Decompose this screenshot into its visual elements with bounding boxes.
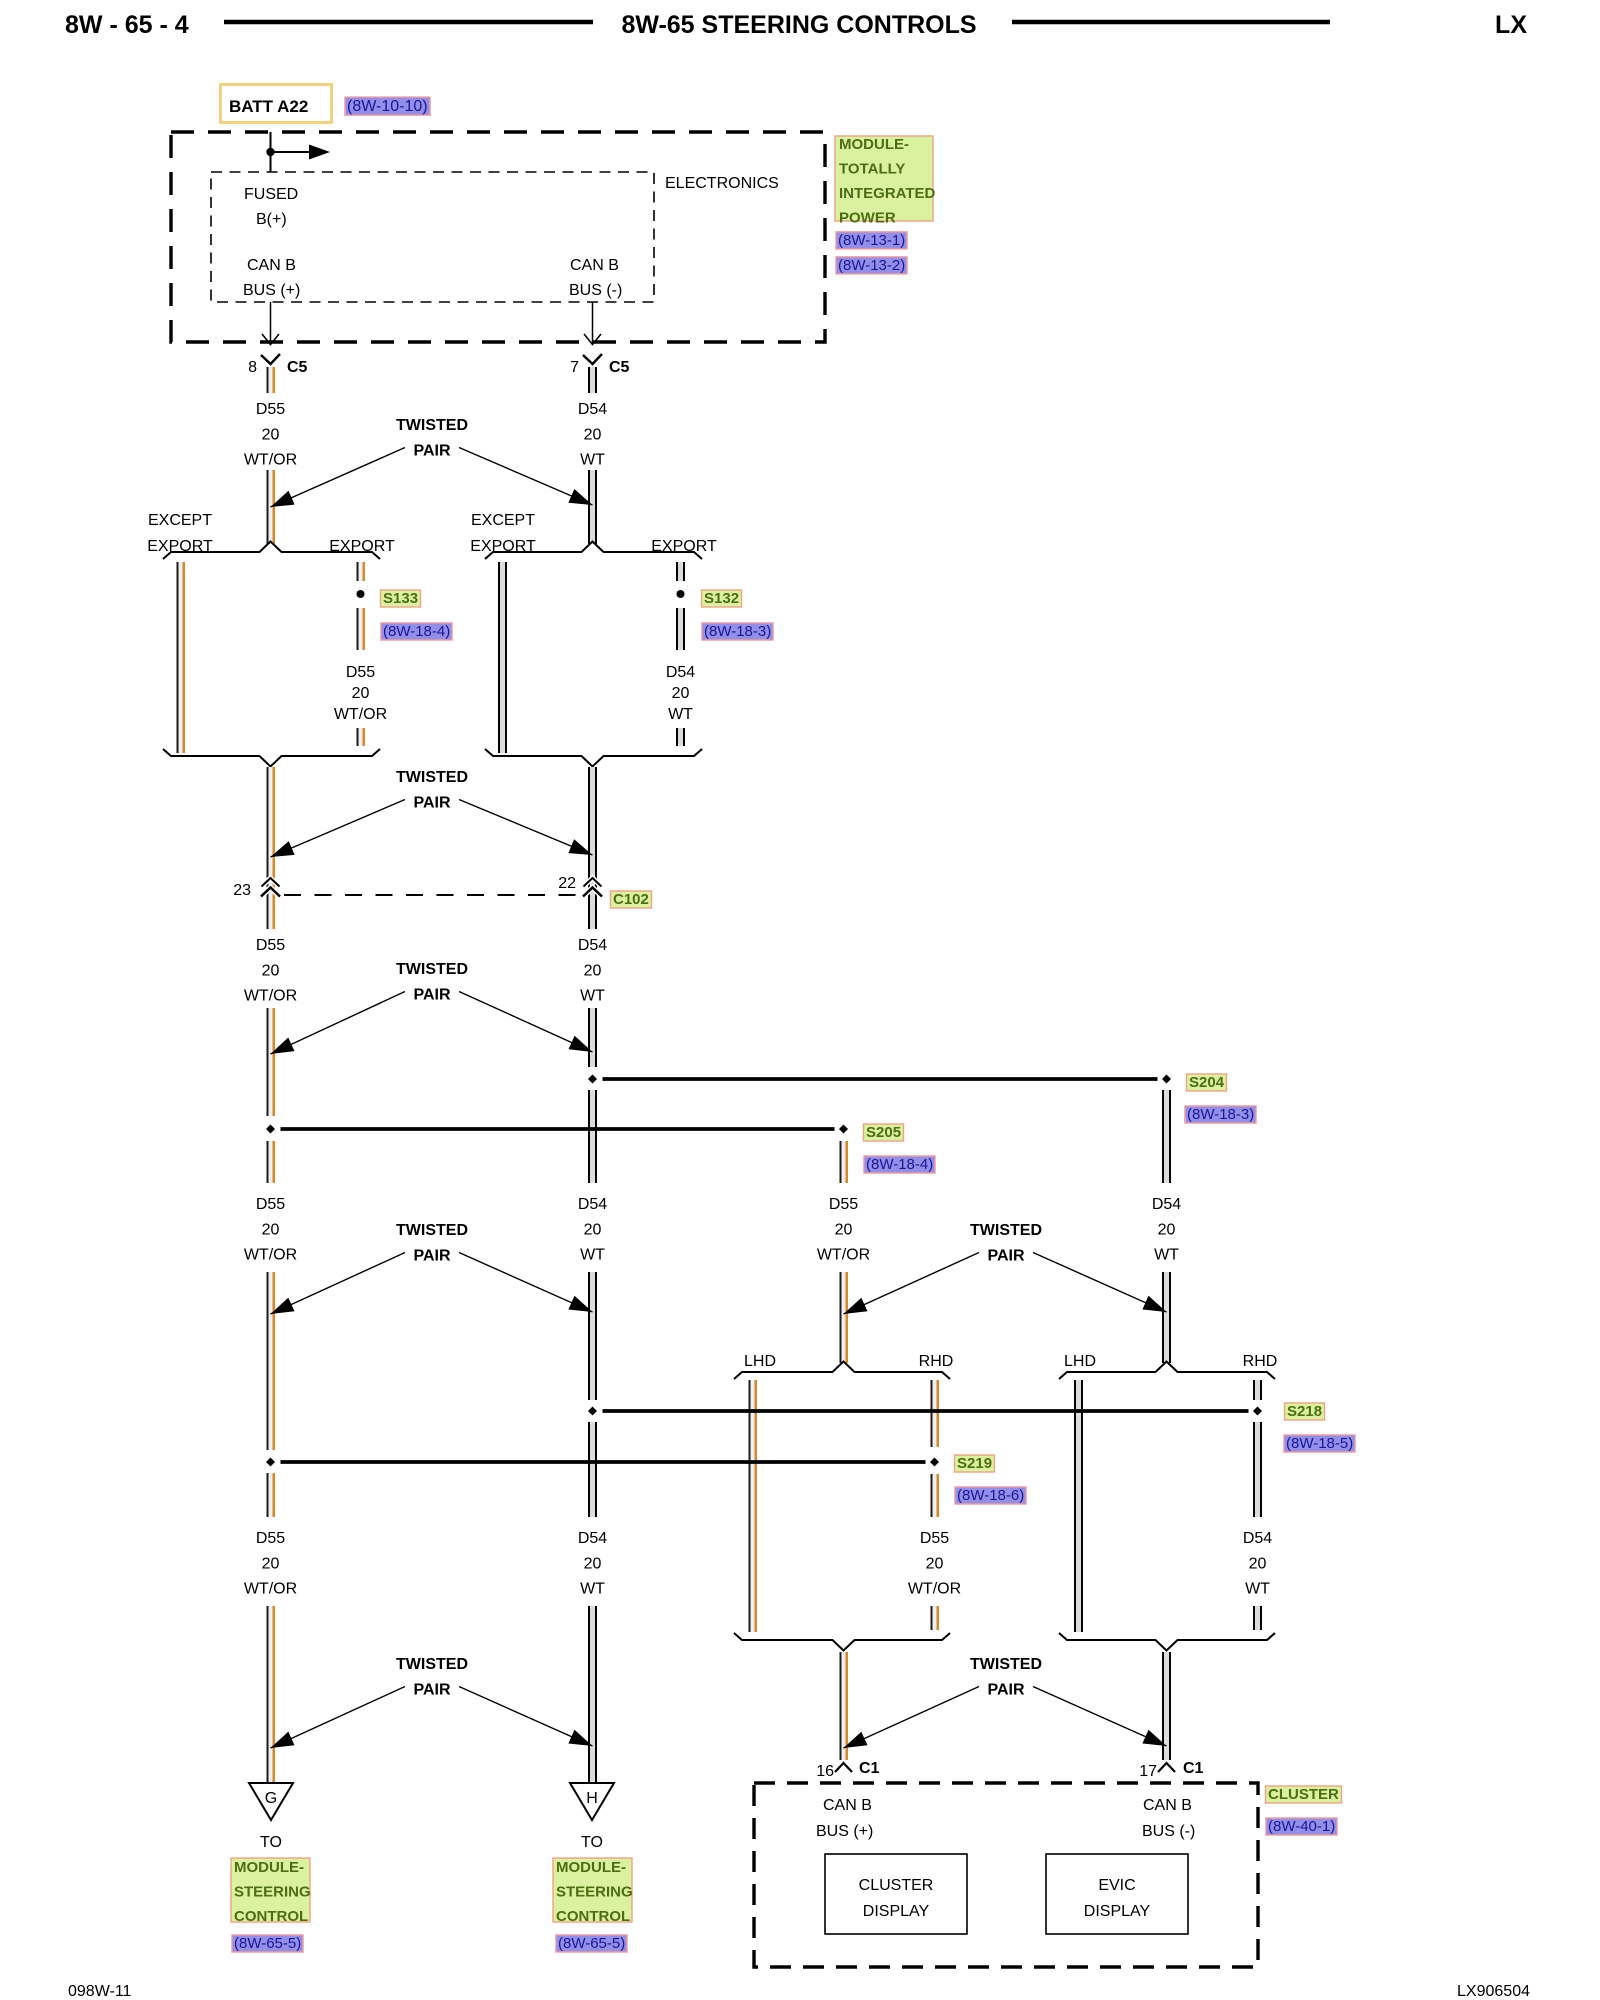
connector label C102 (611, 891, 652, 908)
wire D54 stub dropping from S204 splice (1162, 1090, 1171, 1183)
svg-text:MODULE-: MODULE- (839, 136, 909, 153)
svg-text:LHD: LHD (1064, 1353, 1096, 1370)
splice S204 line (603, 1077, 1158, 1081)
label D55 20 WT/OR (column 1) (244, 1196, 297, 1264)
reference label (8W-18-3) for S204 (1185, 1106, 1256, 1123)
svg-text:TWISTED: TWISTED (396, 1656, 468, 1673)
wire except-export branch WT (498, 562, 507, 753)
splice label S132 (702, 590, 742, 607)
label CAN B BUS (-) in cluster (1142, 1797, 1195, 1840)
reference label (8W-18-4) for S133 (381, 623, 452, 640)
svg-text:CLUSTER: CLUSTER (859, 1877, 934, 1894)
svg-text:WT: WT (668, 706, 693, 723)
svg-text:20: 20 (672, 685, 690, 702)
splice label S133 (381, 590, 421, 607)
svg-text:20: 20 (584, 427, 602, 444)
wire D55 stub dropping from S205 splice (840, 1141, 849, 1183)
splice S218 end dot (1253, 1407, 1262, 1416)
svg-text:(8W-18-3): (8W-18-3) (1187, 1106, 1254, 1123)
wire merged WT/OR to connector C1 (840, 1652, 849, 1760)
svg-text:16: 16 (816, 1763, 834, 1780)
wire D54 segment below S204 (588, 1090, 597, 1183)
reference label (8W-40-1) (1266, 1818, 1337, 1835)
svg-text:FUSED: FUSED (244, 186, 298, 203)
label D54 20 WT (second) (578, 937, 607, 1005)
svg-text:WT/OR: WT/OR (244, 452, 297, 469)
cluster display box (825, 1854, 967, 1934)
svg-text:LX906504: LX906504 (1457, 1983, 1530, 2000)
svg-text:WT: WT (580, 452, 605, 469)
svg-text:20: 20 (262, 1222, 280, 1239)
destination MODULE-STEERING CONTROL (right) (553, 1858, 633, 1925)
connector C1 pin 16 symbol (816, 1760, 879, 1780)
inner electronics dashed outline (211, 172, 654, 302)
label EXCEPT EXPORT (right group) (470, 512, 536, 555)
wire D54 column4 to LHD/RHD brace (1162, 1272, 1171, 1363)
svg-text:D55: D55 (346, 664, 375, 681)
wire D54 column2 to terminator H (588, 1606, 597, 1783)
wire D55 column1 to S219 (267, 1272, 276, 1450)
svg-text:RHD: RHD (1243, 1353, 1278, 1370)
svg-text:WT: WT (580, 1581, 605, 1598)
reference label (8W-65-5) left (232, 1935, 303, 1952)
reference label (8W-13-1) (836, 232, 907, 249)
svg-text:BUS (-): BUS (-) (569, 282, 622, 299)
svg-text:WT/OR: WT/OR (244, 1247, 297, 1264)
svg-text:S132: S132 (704, 590, 739, 607)
svg-text:EXCEPT: EXCEPT (471, 512, 535, 529)
svg-text:TWISTED: TWISTED (396, 417, 468, 434)
svg-text:CONTROL: CONTROL (234, 1908, 308, 1925)
wire D55 segment to C102 (267, 767, 276, 876)
svg-text:20: 20 (1158, 1222, 1176, 1239)
svg-text:C5: C5 (287, 359, 308, 376)
header rule left (224, 20, 593, 25)
svg-text:S204: S204 (1189, 1074, 1225, 1091)
evic display box (1046, 1854, 1188, 1934)
svg-text:WT/OR: WT/OR (244, 1581, 297, 1598)
merge brace left group (163, 749, 380, 767)
splice S205 dot on D55 (266, 1125, 275, 1134)
svg-text:EXCEPT: EXCEPT (148, 512, 212, 529)
battery feed branch arrow to right (271, 145, 331, 160)
svg-text:CAN B: CAN B (823, 1797, 872, 1814)
reference label (8W-18-5) for S218 (1284, 1435, 1355, 1452)
connector C1 pin 17 symbol (1139, 1760, 1203, 1780)
splice S132 dot (677, 590, 685, 598)
svg-text:PAIR: PAIR (413, 795, 450, 812)
svg-text:LX: LX (1495, 11, 1527, 39)
wire export branch below S133 (357, 608, 366, 650)
splice S204 dot on D54 (588, 1075, 597, 1084)
wire D54 segment to C102 (588, 767, 597, 876)
svg-text:(8W-18-4): (8W-18-4) (866, 1156, 933, 1173)
wire D55 column1 below S219 (267, 1473, 276, 1517)
svg-text:DISPLAY: DISPLAY (1084, 1903, 1151, 1920)
svg-text:D54: D54 (578, 1196, 607, 1213)
svg-text:LHD: LHD (744, 1353, 776, 1370)
label TWISTED PAIR (third) (396, 961, 468, 1004)
svg-text:D54: D54 (1243, 1530, 1272, 1547)
label D54 20 WT (top) (578, 401, 607, 469)
svg-text:WT: WT (580, 1247, 605, 1264)
label D55 20 WT/OR (column1 bottom) (244, 1530, 297, 1598)
splice label S218 (1285, 1403, 1325, 1420)
svg-text:BUS (+): BUS (+) (816, 1823, 873, 1840)
label D55 20 WT/OR (RHD left) (908, 1530, 961, 1598)
svg-text:(8W-65-5): (8W-65-5) (558, 1935, 625, 1952)
svg-text:S218: S218 (1287, 1403, 1322, 1420)
svg-text:RHD: RHD (919, 1353, 954, 1370)
wire D54 20 WT below C5 (588, 367, 597, 393)
reference label (8W-18-6) for S219 (955, 1487, 1026, 1504)
module label CLUSTER (1266, 1786, 1342, 1803)
svg-text:C1: C1 (859, 1760, 880, 1777)
svg-text:17: 17 (1139, 1763, 1157, 1780)
wire except-export branch WT/OR (177, 562, 186, 753)
svg-text:S219: S219 (957, 1455, 992, 1472)
wire export branch stub WT/OR upper (357, 562, 366, 581)
svg-text:TOTALLY: TOTALLY (839, 161, 905, 178)
svg-text:PAIR: PAIR (413, 987, 450, 1004)
connector C102 pin 22 symbol (558, 875, 602, 897)
svg-text:(8W-18-5): (8W-18-5) (1286, 1435, 1353, 1452)
svg-text:WT/OR: WT/OR (817, 1247, 870, 1264)
svg-text:PAIR: PAIR (987, 1682, 1024, 1699)
wire RHD branch WT/OR upper stub (931, 1380, 940, 1447)
svg-text:CAN B: CAN B (1143, 1797, 1192, 1814)
label TWISTED PAIR (sixth, bottom left) (396, 1656, 468, 1699)
twisted pair arrow to D54 mid (459, 992, 593, 1053)
svg-text:D55: D55 (256, 937, 285, 954)
svg-text:PAIR: PAIR (413, 1248, 450, 1265)
svg-text:B(+): B(+) (256, 211, 287, 228)
label FUSED B(+) (244, 186, 298, 228)
wire D54 column2 above S218 (588, 1272, 597, 1400)
svg-text:8W-65 STEERING CONTROLS: 8W-65 STEERING CONTROLS (621, 11, 976, 39)
wire from BATT A22 into module (270, 132, 272, 172)
svg-text:8: 8 (248, 359, 257, 376)
wire D55 stub below S205 (267, 1141, 276, 1183)
svg-text:CAN B: CAN B (247, 257, 296, 274)
wire D54 column2 below S218 (588, 1422, 597, 1517)
twisted pair arrow to WT bottom (1033, 1687, 1167, 1747)
svg-text:C1: C1 (1183, 1760, 1204, 1777)
svg-text:WT/OR: WT/OR (244, 988, 297, 1005)
wire D54 through C102 (588, 876, 597, 929)
junction dot on battery feed (266, 148, 274, 156)
svg-text:20: 20 (262, 1556, 280, 1573)
wire D54 segment above S204 (588, 1008, 597, 1067)
splice label S205 (864, 1124, 904, 1141)
reference label (8W-18-3) for S132 (702, 623, 773, 640)
reference label (8W-13-2) (836, 257, 907, 274)
svg-text:D55: D55 (920, 1530, 949, 1547)
wire export branch stub WT lower (676, 728, 685, 746)
splice label S219 (955, 1455, 995, 1472)
label D55 20 WT/OR (top) (244, 401, 297, 469)
svg-text:DISPLAY: DISPLAY (863, 1903, 930, 1920)
svg-text:WT: WT (580, 988, 605, 1005)
splice label S204 (1187, 1074, 1227, 1091)
svg-text:(8W-13-1): (8W-13-1) (838, 232, 905, 249)
svg-text:D54: D54 (1152, 1196, 1181, 1213)
svg-text:D54: D54 (578, 937, 607, 954)
twisted pair arrow to D55 bottom (271, 1687, 406, 1749)
svg-text:C102: C102 (613, 891, 649, 908)
label D54 20 WT (RHD right) (1243, 1530, 1272, 1598)
battery feed box BATT A22 (221, 85, 332, 123)
splice S205 line (281, 1127, 835, 1131)
svg-text:20: 20 (1249, 1556, 1267, 1573)
twisted pair arrow to D54 bottom (459, 1687, 593, 1747)
svg-text:D55: D55 (256, 1196, 285, 1213)
splice S219 end dot (930, 1458, 939, 1467)
reference label (8W-10-10) (345, 97, 430, 115)
wire CAN B BUS (+) leaving module with arrowhead (262, 302, 279, 345)
svg-text:D55: D55 (256, 1530, 285, 1547)
splice S218 line (603, 1409, 1249, 1413)
splice S204 end dot (1162, 1075, 1171, 1084)
label TWISTED PAIR (first) (396, 417, 468, 460)
svg-text:(8W-65-5): (8W-65-5) (234, 1935, 301, 1952)
cluster dashed outline (754, 1783, 1258, 1967)
svg-text:20: 20 (835, 1222, 853, 1239)
splice S219 dot on D55 (266, 1458, 275, 1467)
splice S133 dot (357, 590, 365, 598)
split brace left group (163, 542, 380, 560)
wire D55 column1 to terminator G (267, 1606, 276, 1783)
label CAN B BUS (+) in cluster (816, 1797, 873, 1840)
svg-text:(8W-18-6): (8W-18-6) (957, 1487, 1024, 1504)
svg-text:D55: D55 (829, 1196, 858, 1213)
twisted pair arrow to D55 (271, 448, 406, 508)
module - totally integrated power dashed outline (171, 132, 825, 342)
wire RHD branch WT upper stub (1253, 1380, 1262, 1400)
svg-text:WT: WT (1245, 1581, 1270, 1598)
splice S218 dot on D54 (588, 1407, 597, 1416)
wire D55 segment to S205 (267, 1008, 276, 1116)
svg-text:PAIR: PAIR (413, 443, 450, 460)
connector C102 dashed separation line (284, 894, 584, 896)
svg-text:POWER: POWER (839, 210, 896, 227)
twisted pair arrow to D55 above C102 (271, 800, 406, 858)
svg-text:(8W-10-10): (8W-10-10) (347, 98, 428, 115)
svg-text:PAIR: PAIR (987, 1248, 1024, 1265)
splice S205 end dot (839, 1125, 848, 1134)
svg-text:23: 23 (233, 882, 251, 899)
svg-text:098W-11: 098W-11 (68, 1983, 132, 2000)
wire merged WT to connector C1 (1162, 1652, 1171, 1760)
connector C5 pin 8 symbol (248, 354, 307, 376)
wire D55 20 WT/OR below C5 (267, 367, 276, 393)
svg-text:D55: D55 (256, 401, 285, 418)
svg-text:CLUSTER: CLUSTER (1268, 1786, 1339, 1803)
svg-text:INTEGRATED: INTEGRATED (839, 185, 936, 202)
merge brace right group (485, 749, 702, 767)
wire RHD WT/OR below S219 (931, 1474, 940, 1517)
svg-text:(8W-18-4): (8W-18-4) (383, 623, 450, 640)
twisted pair arrow to D54 above C102 (459, 800, 593, 856)
wire D55 column3 to LHD/RHD brace (840, 1272, 849, 1363)
svg-text:C5: C5 (609, 359, 630, 376)
svg-text:TO: TO (581, 1834, 603, 1851)
svg-text:TWISTED: TWISTED (396, 769, 468, 786)
destination MODULE-STEERING CONTROL (left) (231, 1858, 311, 1925)
svg-text:WT/OR: WT/OR (908, 1581, 961, 1598)
label TWISTED PAIR (fourth, columns 1-2) (396, 1222, 468, 1265)
svg-text:TO: TO (260, 1834, 282, 1851)
twisted pair arrow to D55 mid (271, 992, 406, 1055)
label CAN B BUS (+) inside TIPM (243, 257, 300, 299)
wire export branch stub WT upper (676, 562, 685, 581)
svg-text:(8W-18-3): (8W-18-3) (704, 623, 771, 640)
svg-text:20: 20 (262, 963, 280, 980)
twisted pair arrow to D55 column1 (271, 1253, 406, 1315)
reference label (8W-18-4) for S205 (864, 1156, 935, 1173)
label TWISTED PAIR (fifth, columns 3-4) (970, 1222, 1042, 1265)
svg-text:8W - 65 - 4: 8W - 65 - 4 (65, 11, 189, 39)
merge brace LHD/RHD left (734, 1633, 950, 1651)
terminator G triangle (249, 1783, 293, 1820)
label D54 20 WT (column2 bottom) (578, 1530, 607, 1598)
svg-text:D54: D54 (578, 401, 607, 418)
wire LHD branch WT/OR (749, 1380, 758, 1632)
twisted pair arrow to D54 column4 (1033, 1253, 1167, 1313)
svg-text:STEERING: STEERING (556, 1884, 633, 1901)
svg-text:BATT A22: BATT A22 (229, 97, 308, 116)
connector C102 pin 23 symbol (233, 878, 280, 899)
wire D54 segment to split brace (588, 470, 597, 544)
svg-text:MODULE-: MODULE- (556, 1859, 626, 1876)
svg-text:(8W-40-1): (8W-40-1) (1268, 1818, 1335, 1835)
svg-text:EVIC: EVIC (1098, 1877, 1135, 1894)
split brace LHD/RHD right (1059, 1362, 1275, 1380)
module name MODULE-TOTALLY INTEGRATED POWER (835, 136, 936, 227)
label TWISTED PAIR (seventh, bottom right) (970, 1656, 1042, 1699)
reference label (8W-65-5) right (556, 1935, 627, 1952)
wire RHD WT/OR lower stub (931, 1606, 940, 1630)
twisted pair arrow to D54 column2 (459, 1253, 593, 1313)
svg-text:20: 20 (262, 427, 280, 444)
wire D55 segment to split brace (267, 470, 276, 544)
svg-text:CAN B: CAN B (570, 257, 619, 274)
connector C5 pin 7 symbol (570, 354, 629, 376)
svg-text:CONTROL: CONTROL (556, 1908, 630, 1925)
svg-text:WT/OR: WT/OR (334, 706, 387, 723)
label D54 20 WT (column 4) (1152, 1196, 1181, 1264)
terminator H triangle (570, 1783, 614, 1820)
wire export branch stub WT/OR lower (357, 728, 366, 746)
svg-text:7: 7 (570, 359, 579, 376)
svg-text:20: 20 (352, 685, 370, 702)
label D54 20 WT (column 2) (578, 1196, 607, 1264)
svg-text:TWISTED: TWISTED (396, 1222, 468, 1239)
wire D55 through C102 (267, 876, 276, 929)
svg-text:20: 20 (926, 1556, 944, 1573)
split brace right group (485, 542, 702, 560)
wire LHD branch WT (1074, 1380, 1083, 1632)
svg-text:20: 20 (584, 963, 602, 980)
label D55 20 WT/OR (second) (244, 937, 297, 1005)
svg-text:D54: D54 (578, 1530, 607, 1547)
header rule right (1012, 20, 1330, 25)
svg-text:20: 20 (584, 1556, 602, 1573)
twisted pair arrow to D54 (459, 448, 593, 506)
svg-text:BUS (+): BUS (+) (243, 282, 300, 299)
svg-text:S205: S205 (866, 1124, 901, 1141)
svg-text:G: G (265, 1790, 277, 1807)
svg-text:D54: D54 (666, 664, 695, 681)
svg-text:TWISTED: TWISTED (970, 1222, 1042, 1239)
label TWISTED PAIR (second) (396, 769, 468, 812)
svg-text:STEERING: STEERING (234, 1884, 311, 1901)
label D55 20 WT/OR (export branch) (334, 664, 387, 723)
wire export branch below S132 (676, 608, 685, 650)
label CAN B BUS (-) inside TIPM (569, 257, 622, 299)
label D54 20 WT (export branch) (666, 664, 695, 723)
svg-text:MODULE-: MODULE- (234, 1859, 304, 1876)
twisted pair arrow to WT/OR bottom (844, 1687, 980, 1749)
wire CAN B BUS (-) leaving module with arrowhead (584, 302, 601, 345)
svg-text:BUS (-): BUS (-) (1142, 1823, 1195, 1840)
svg-text:(8W-13-2): (8W-13-2) (838, 257, 905, 274)
split brace LHD/RHD left (734, 1362, 950, 1380)
svg-text:TWISTED: TWISTED (970, 1656, 1042, 1673)
wire RHD WT below S218 (1253, 1422, 1262, 1517)
merge brace LHD/RHD right (1059, 1633, 1275, 1651)
label D55 20 WT/OR (column 3) (817, 1196, 870, 1264)
svg-text:ELECTRONICS: ELECTRONICS (665, 175, 779, 192)
svg-text:WT: WT (1154, 1247, 1179, 1264)
svg-text:S133: S133 (383, 590, 418, 607)
svg-text:PAIR: PAIR (413, 1682, 450, 1699)
svg-text:TWISTED: TWISTED (396, 961, 468, 978)
svg-text:22: 22 (558, 875, 576, 892)
label EXCEPT EXPORT (left group) (147, 512, 213, 555)
twisted pair arrow to D55 column3 (844, 1253, 980, 1315)
splice S219 line (281, 1460, 926, 1464)
wire RHD WT lower stub (1253, 1606, 1262, 1630)
svg-text:H: H (586, 1790, 598, 1807)
svg-text:20: 20 (584, 1222, 602, 1239)
